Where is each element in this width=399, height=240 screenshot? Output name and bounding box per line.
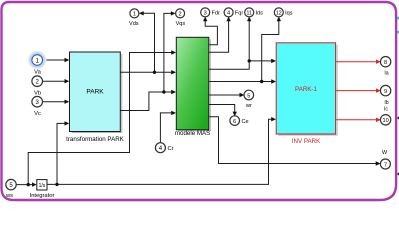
svg-text:Ia: Ia	[384, 70, 388, 76]
svg-text:Fdr: Fdr	[212, 11, 221, 17]
wire green out1 to port 3 Fdr	[205, 21, 217, 45]
port 1 Vds (top)	[129, 9, 139, 27]
svg-text:2: 2	[179, 12, 182, 18]
junction Vds tap	[153, 71, 156, 74]
wire Cr to green in4	[160, 113, 172, 143]
wire green out4 to port 12 Iqs and INV PARK in2	[209, 21, 279, 82]
svg-text:7: 7	[384, 162, 387, 168]
port 3 Fdr (top)	[201, 8, 220, 17]
svg-text:8: 8	[384, 60, 387, 66]
wire green out5 to port 5 wr	[209, 94, 241, 96]
block PARK (transformation PARK)	[66, 52, 125, 143]
svg-text:Va: Va	[34, 70, 41, 76]
svg-text:12: 12	[276, 11, 282, 17]
port 10 Ic	[380, 107, 390, 126]
edge artifact marks	[397, 17, 399, 20]
svg-text:Cr: Cr	[168, 146, 174, 152]
svg-text:wr: wr	[245, 103, 252, 109]
wire red Ic	[336, 119, 377, 121]
svg-text:1: 1	[133, 12, 136, 18]
block INV PARK (PARK-1)	[276, 43, 337, 145]
block Integrator 1/s	[30, 180, 55, 199]
junction theta	[55, 183, 58, 186]
junction ws	[27, 183, 30, 186]
svg-text:5: 5	[247, 93, 250, 99]
svg-text:4: 4	[227, 11, 230, 17]
svg-text:Vqs: Vqs	[176, 21, 186, 27]
wire green out7 W to port 7	[209, 117, 377, 164]
wire red Ib	[336, 90, 377, 92]
svg-text:Ic: Ic	[384, 107, 388, 113]
svg-text:11: 11	[247, 11, 252, 17]
port 5 ws	[5, 179, 16, 199]
svg-text:Fqr: Fqr	[235, 11, 244, 17]
wire PARK out1 to green in2 (Vds net, tap to port 1)	[120, 13, 172, 72]
svg-text:PARK-1: PARK-1	[295, 86, 317, 93]
svg-text:ws: ws	[5, 193, 13, 199]
port 9 Ib	[380, 85, 390, 106]
wire green out3 to port 11 Ids and INV PARK in1	[209, 21, 272, 70]
port 5 wr	[244, 90, 254, 109]
wire green out6 to port 6 Ce	[209, 105, 235, 113]
svg-text:PARK: PARK	[86, 89, 104, 96]
svg-text:9: 9	[384, 89, 387, 95]
svg-text:Vb: Vb	[34, 91, 41, 97]
junction Ids tap	[248, 59, 251, 62]
svg-text:modele MAS: modele MAS	[175, 130, 210, 137]
port 2 Vb	[32, 76, 43, 97]
wire red Ia	[336, 61, 377, 63]
port 12 Iqs (top)	[274, 8, 292, 17]
svg-text:Vc: Vc	[34, 111, 41, 117]
port 4 Fqr (top)	[224, 8, 243, 17]
wire Vc	[43, 101, 66, 103]
svg-text:6: 6	[233, 119, 236, 125]
svg-text:10: 10	[382, 118, 388, 124]
svg-text:transformation PARK: transformation PARK	[66, 136, 125, 143]
wire PARK out2 to green in3 (Vqs net, tap to port 2)	[120, 13, 172, 110]
port 3 Vc	[32, 96, 43, 117]
port 6 Ce	[230, 116, 249, 126]
port 2 Vqs (top)	[176, 9, 186, 27]
svg-text:1/s: 1/s	[39, 183, 46, 189]
junction Vqs tap	[162, 90, 165, 93]
svg-text:W: W	[382, 150, 388, 156]
svg-text:Ce: Ce	[242, 119, 249, 125]
svg-text:INV PARK: INV PARK	[292, 138, 321, 145]
port 7 W	[380, 150, 390, 169]
svg-text:Iqs: Iqs	[285, 11, 293, 17]
svg-text:Ib: Ib	[384, 100, 388, 106]
wire ws to integrator and green in1	[16, 53, 172, 185]
port 11 Ids (top)	[245, 8, 263, 17]
port 8 Ia	[380, 57, 390, 77]
block modele MAS	[175, 37, 211, 137]
port 4 Cr	[155, 143, 173, 153]
wire Vb	[43, 80, 66, 82]
wire theta: integrator out to PARK in4 and INV PARK in3	[47, 119, 272, 184]
wire green out2 to port 4 Fqr	[209, 21, 229, 53]
wire Va	[43, 59, 66, 61]
port 1 Va (selected halo)	[29, 52, 45, 76]
svg-text:Vds: Vds	[129, 21, 139, 27]
junction Iqs tap	[260, 80, 263, 83]
svg-text:Ids: Ids	[256, 11, 264, 17]
svg-text:Integrator: Integrator	[30, 193, 55, 199]
svg-text:3: 3	[204, 11, 207, 17]
